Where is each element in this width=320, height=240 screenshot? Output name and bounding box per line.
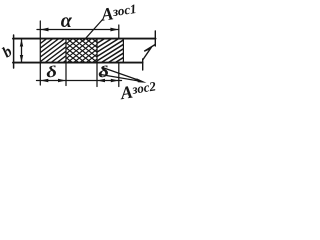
hatch region right (single): [52, 39, 167, 63]
arrowhead b top: [20, 39, 23, 46]
bar top edge: [13, 38, 156, 40]
break zigzag: [143, 45, 155, 60]
label A3oc1: [99, 0, 138, 25]
arrowhead of A3oc2 leader: [137, 78, 147, 83]
bar right end bottom tick: [142, 59, 144, 70]
leader lines to A3oc2: [101, 68, 140, 82]
right hatch boundary x=123.5: [122, 39, 124, 62]
arrowhead delta2 right: [111, 79, 119, 83]
extension line at x=119 above bar: [118, 25, 120, 39]
hatch boundary / extension line at x=66: [65, 39, 67, 86]
label A3oc2: [118, 78, 158, 104]
arrowhead alpha right: [110, 28, 118, 32]
arrowhead alpha left: [40, 28, 48, 32]
hatch boundary / extension line at x=40: [39, 21, 41, 85]
svg-text:δ: δ: [97, 63, 109, 82]
dimension line alpha: [37, 29, 119, 31]
arrowhead delta1 left: [40, 79, 48, 83]
dimension line delta row: [37, 80, 122, 82]
leader to A3oc1: [84, 19, 103, 40]
extension line at x=119 below bar: [118, 63, 120, 87]
dimension line b: [21, 40, 23, 63]
arrowhead delta2 left: [97, 79, 105, 83]
arrowhead b bottom: [20, 55, 23, 62]
svg-text:α: α: [61, 10, 73, 32]
svg-text:δ: δ: [45, 63, 57, 82]
hatch boundary / extension line at x=97: [96, 39, 98, 87]
hatch region middle (cross): [30, 39, 129, 63]
bar bottom edge: [13, 62, 143, 64]
arrowhead delta1 right: [58, 79, 66, 83]
hatch region left (single): [3, 39, 100, 63]
bar right end top tick: [154, 31, 156, 46]
bar left end line: [13, 35, 15, 68]
